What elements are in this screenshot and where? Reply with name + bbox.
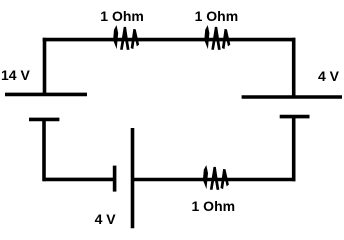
resistor R2 (1 Ohm, top right) zigzag [204, 25, 230, 50]
label B1 value: 14 V [1, 68, 30, 82]
battery B2 long plate (4 V bottom, positive) [131, 128, 135, 228]
wire right vertical (top wire down to B3) [292, 38, 296, 97]
label R3 value: 1 Ohm [192, 199, 236, 213]
battery B3 short plate (4 V right, negative) [280, 115, 310, 119]
battery B1 short plate (14 V, negative) [29, 118, 59, 122]
wire bottom-left horizontal [43, 178, 115, 182]
wire left vertical (below B1 to bottom wire) [42, 119, 46, 181]
label B2 value: 4 V [95, 212, 116, 226]
battery B3 long plate (4 V right, positive) [242, 95, 342, 99]
wire top horizontal [43, 38, 296, 42]
battery B2 short plate (4 V bottom, negative) [113, 166, 117, 192]
label B3 value: 4 V [318, 69, 339, 83]
resistor R1 (1 Ohm, top left) zigzag [113, 25, 139, 50]
battery B1 long plate (14 V, positive) [5, 93, 87, 97]
label R1 value: 1 Ohm [100, 9, 144, 23]
resistor R3 (1 Ohm, bottom) zigzag [203, 165, 229, 190]
wire bottom-right horizontal [133, 178, 296, 182]
wire right vertical (from bottom wire up to battery B3) [292, 117, 296, 182]
label R2 value: 1 Ohm [195, 9, 239, 23]
wire left vertical (top, from top wire to battery B1) [43, 38, 47, 95]
